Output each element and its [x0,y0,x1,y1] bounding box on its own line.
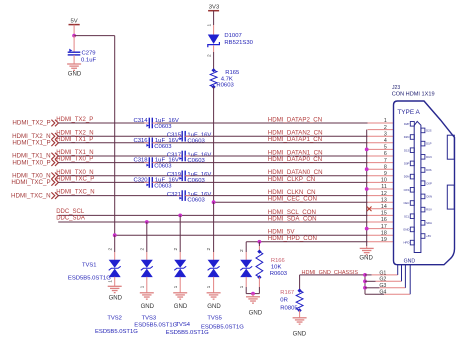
ground C279 [67,64,82,77]
svg-text:HDMI_TXC_N: HDMI_TXC_N [56,190,94,196]
svg-text:ESD5B5.0ST1G: ESD5B5.0ST1G [166,330,209,336]
svg-text:+5V: +5V [426,234,431,238]
svg-text:10K: 10K [271,265,282,271]
wire TVS3 pin2 stub [179,215,181,260]
value R167 R0805 [280,306,298,312]
svg-text:D0N: D0N [404,175,410,179]
pin label G4 [379,290,386,296]
svg-text:HDMI_DATAP2_CN: HDMI_DATAP2_CN [268,116,322,123]
capacitor C314 [146,118,152,129]
svg-text:HDMI_SDA_CON: HDMI_SDA_CON [268,215,317,222]
svg-text:C0603: C0603 [187,138,205,144]
wire shield gnd bus [366,130,368,246]
svg-text:C0603: C0603 [154,124,172,130]
tvs diode TVS4 [208,260,220,277]
svg-text:TVS3: TVS3 [142,315,157,321]
node SCL junction TVS3 [178,214,182,218]
port HDMI_TX0_P [12,159,58,166]
svg-text:C0603: C0603 [187,158,205,164]
svg-text:HDMI_CLKP_CN: HDMI_CLKP_CN [268,176,315,183]
node CEC junction TVS4 [212,200,216,204]
pin number 6 [384,151,387,157]
svg-text:8: 8 [384,164,387,170]
value C318 1uF 16V [155,158,179,164]
connector pin box pin 12 [421,194,432,199]
wire chassis bus [364,275,366,294]
svg-text:D1007: D1007 [224,33,241,39]
svg-text:9: 9 [384,171,387,177]
svg-text:HDMI_TXC_P: HDMI_TXC_P [56,177,94,183]
wire HDMI_TX0_N left segment [58,175,182,177]
net label HDMI_SCL_CON [268,209,316,216]
value C321 1uF 16V [187,192,211,198]
value C316 C0603 [154,144,172,150]
svg-text:RSV: RSV [426,208,432,212]
pin label G2 [379,277,386,283]
svg-text:R0805: R0805 [280,306,298,312]
svg-text:HDMI_TXC_P: HDMI_TXC_P [11,179,50,186]
svg-text:2: 2 [206,248,212,251]
node chassis bus G2 [363,279,367,283]
wire TVS5 gnd stem [252,294,254,297]
svg-text:G1: G1 [379,270,386,276]
tvs diode TVS1 [109,260,121,277]
pin 17 stub [368,228,394,230]
pin 1 D1007 [206,24,212,27]
pin 8 stub [368,168,394,170]
pin number 2 [384,125,387,131]
value C318 C0603 [154,164,172,170]
wire TVS1 pin2 stub [114,235,116,260]
wire G1 [365,274,398,276]
wire HDMI_TX1_P right segment [152,142,367,144]
wire G2 [365,280,402,282]
net label HDMI_DATAN2_CN [268,130,323,137]
pin label G3 [379,283,386,289]
svg-text:HDMI_DATAP0_CN: HDMI_DATAP0_CN [268,156,322,163]
connector pin box pin 8 [421,168,432,173]
svg-text:C279: C279 [82,50,96,56]
svg-text:HPD: HPD [403,241,409,245]
wire R166 pin1 stub [258,242,260,252]
svg-text:1: 1 [173,285,179,288]
pin number 5 [384,145,387,151]
svg-text:HDMI_TX2_P: HDMI_TX2_P [56,117,93,123]
label C279 [82,50,96,56]
label J23 [392,85,400,91]
port HDMI_TX2_P [12,120,58,127]
svg-text:C320: C320 [134,178,149,184]
pin 19 stub [368,241,394,243]
wire TVS5 R166 gnd link [246,293,259,295]
wire G4 [365,293,410,295]
svg-text:D0P: D0P [404,162,410,166]
svg-text:2: 2 [107,248,113,251]
pin number 4 [384,138,387,144]
svg-text:17: 17 [381,224,387,230]
wire HDMI_TX1_N right segment [185,155,367,157]
svg-text:GND: GND [359,255,373,261]
pin number 7 [384,158,387,164]
svg-text:CKP: CKP [426,181,432,185]
net label HDMI_TX0_N [56,170,93,176]
pin number 3 [384,131,387,137]
svg-text:C0603: C0603 [187,178,205,184]
svg-text:1: 1 [206,24,212,27]
pin 9 stub [368,175,394,177]
svg-text:HDMI_TX0_N: HDMI_TX0_N [56,170,93,176]
svg-text:R0603: R0603 [270,271,288,277]
wire HDMI_TX2_N right segment [185,135,367,137]
svg-text:C321: C321 [167,192,181,198]
node R167 top [298,289,301,292]
label C314 [134,118,149,124]
node 5V junction [72,34,76,38]
label D1007 [224,33,241,39]
net label HDMI_DATAN1_CN [268,149,323,156]
svg-text:19: 19 [381,237,387,243]
svg-text:2: 2 [384,125,387,131]
ground TVS5 [246,297,263,317]
pin 16 stub [368,221,394,223]
value CON HDMI 1X19 [392,91,435,97]
label C317 [167,152,181,158]
connector J23 body [394,101,455,265]
value R165 4.7K [221,76,233,82]
label TVS1 [82,263,97,269]
svg-text:G4: G4 [379,290,386,296]
svg-text:HDMI_TX1_P: HDMI_TX1_P [12,140,50,147]
pin G1 drop [397,265,399,275]
label TYPE A [397,109,420,116]
svg-text:GND: GND [109,296,123,302]
connector pin box pin 6 [421,155,432,160]
svg-text:HDMI_TX0_P: HDMI_TX0_P [12,159,50,166]
svg-text:R165: R165 [225,70,240,76]
wire HDMI_TX0_P right segment [152,162,367,164]
power symbol 5V [69,18,80,24]
label TVS4 [176,322,191,328]
pin number 11 [381,184,387,190]
svg-text:18: 18 [381,230,387,236]
node gnd bus pin 11 [365,187,369,191]
connector pin box pin 9 [404,174,415,179]
label C319 [167,172,181,178]
pin number 14 [381,204,387,210]
net label HDMI_CLKN_CN [268,189,316,196]
pin G3 drop [404,265,406,288]
connector plug blade [414,121,421,252]
wire DDC_SDA [58,221,367,223]
pin number 12 [381,191,387,197]
svg-text:J23: J23 [392,85,400,91]
pin 2 stub [368,129,394,131]
label C315 [167,133,182,139]
svg-text:HDMI_TX2_N: HDMI_TX2_N [56,130,93,136]
svg-text:1: 1 [239,285,245,288]
svg-text:2: 2 [173,248,179,251]
svg-text:GND: GND [404,259,416,265]
connector pin box pin 19 [403,240,414,245]
node gnd bus pin 8 [365,167,369,171]
tvs diode TVS3 [174,260,186,277]
pin 2 TVS2 [139,248,145,251]
port HDMI_TX0_N [12,173,58,180]
wire 5V to TVS1 column [74,36,115,236]
label TVS3 [142,315,157,321]
svg-text:R166: R166 [271,258,285,264]
value TVS3 ESD5B5.0ST1G [134,323,177,329]
power symbol 3V3 [208,5,220,11]
svg-text:D1S: D1S [404,148,410,152]
svg-text:HDMI_HPD_CON: HDMI_HPD_CON [268,235,317,242]
svg-text:C314: C314 [134,118,149,124]
svg-text:D2N: D2N [404,135,410,139]
wire HDMI_TX2_P left segment [58,122,149,124]
svg-text:SCL: SCL [404,214,410,218]
net label HDMI_TX1_N [56,150,93,156]
connector tab lower [447,185,454,209]
capacitor C317 [179,151,185,162]
pin number 17 [381,224,387,230]
svg-text:6: 6 [384,151,387,157]
net label HDMI_CEC_CON [268,196,317,203]
pin 1 TVS4 [206,285,212,288]
pin 10 stub [368,181,394,183]
node gnd bus pin 5 [365,148,369,152]
tvs diode TVS2 [141,260,153,277]
svg-text:2: 2 [239,249,245,252]
value C314 C0603 [154,124,172,130]
pin 3 stub [368,135,394,137]
svg-text:10: 10 [381,178,387,184]
pin 1 TVS1 [107,280,113,283]
svg-text:CKS: CKS [404,188,410,192]
ground TVS2 [140,293,155,310]
value TVS2 ESD5B5.0ST1G [95,329,138,335]
svg-text:14: 14 [381,204,387,210]
svg-text:2: 2 [206,54,212,57]
value RB521S30 [224,40,253,46]
capacitor C321 [179,190,185,201]
tvs diode TVS5 [240,260,252,277]
svg-text:GND: GND [174,304,188,310]
connector tab upper [447,135,454,159]
label C318 [134,158,149,164]
svg-text:1: 1 [384,118,387,124]
wire HDMI_TXC_P right segment [152,181,367,183]
port HDMI_TX2_N [12,133,58,140]
connector pin box pin 5 [404,148,414,153]
svg-text:DDC_SDA: DDC_SDA [56,215,85,221]
net label HDMI_TX0_P [56,157,93,163]
ground R167 [293,318,307,338]
svg-text:7: 7 [384,158,387,164]
svg-text:G3: G3 [379,283,386,289]
net label HDMI_5V [268,229,296,236]
svg-text:16: 16 [381,217,387,223]
label R166 [271,258,285,264]
wire gnd bus stem [366,246,368,248]
svg-text:HDMI_TX0_P: HDMI_TX0_P [56,157,93,163]
connector pin box pin 14 [421,207,432,212]
net label HDMI_TX2_P [56,117,93,123]
svg-text:HDMI_TXC_N: HDMI_TXC_N [11,192,51,199]
wire R167 pin2 stub [299,310,301,317]
svg-text:C318: C318 [134,158,149,164]
svg-text:HDMI_CEC_CON: HDMI_CEC_CON [268,196,317,203]
wire R165 to CEC junction [213,87,215,202]
pin number 16 [381,217,387,223]
svg-text:2: 2 [139,248,145,251]
capacitor C315 [179,131,185,142]
value C316 1uF 16V [155,138,179,144]
svg-text:HDMI_TX1_P: HDMI_TX1_P [56,137,93,143]
connector pin box pin 13 [403,201,414,206]
capacitor C320 [146,177,152,188]
value R167 0R [280,298,288,304]
svg-text:5V: 5V [70,18,77,24]
port HDMI_TX1_N [12,153,58,160]
wire HDMI_TXC_N left segment [58,195,182,197]
pin 2 TVS1 [107,248,113,251]
svg-text:D2S: D2S [426,129,432,133]
svg-text:D1N: D1N [426,155,432,159]
node chassis bus G3 [363,286,367,290]
svg-text:RB521S30: RB521S30 [224,40,253,46]
wire HDMI_TX1_N left segment [58,155,182,157]
net label HDMI_GND_CHASSIS [302,270,359,276]
svg-text:GND: GND [141,304,155,310]
value C321 C0603 [187,198,205,204]
svg-text:GND: GND [293,332,307,338]
wire TVS4 pin2 stub [213,202,215,260]
pin G4 drop [409,265,411,295]
value R166 R0603 [270,271,288,277]
connector pin box pin 3 [404,135,415,140]
pin G2 drop [401,265,403,282]
connector pin box pin 1 [404,122,414,127]
svg-text:4.7K: 4.7K [221,76,233,82]
ground TVS4 [207,293,222,310]
svg-text:R0603: R0603 [216,83,234,89]
value C279 0.1uF [81,57,96,63]
connector pin box pin 11 [404,188,415,193]
svg-text:ESD5B5.0ST1G: ESD5B5.0ST1G [68,275,111,281]
wire 3V3 to D1007 [213,11,215,35]
pin 4 stub [368,142,394,144]
wire HDMI_TX0_N right segment [185,175,367,177]
label connector GND [404,259,416,265]
label R167 [280,290,294,296]
svg-text:ESD5B5.0ST1G: ESD5B5.0ST1G [95,329,138,335]
svg-text:GND: GND [249,311,263,317]
pin number 8 [384,164,387,170]
pin 15 stub [368,214,394,216]
pin 18 stub [368,234,394,236]
pin number 1 [384,118,387,124]
pin 11 stub [368,188,394,190]
wire G3 [365,287,405,289]
svg-text:11: 11 [381,184,387,190]
ground TVS3 [173,293,188,310]
wire DDC_SCL [58,214,367,216]
svg-text:C0603: C0603 [154,183,172,189]
pin 1 TVS2 [139,285,145,288]
port HDMI_TXC_N [11,192,58,199]
wire HDMI_TX2_N left segment [58,135,182,137]
svg-text:TVS5: TVS5 [207,315,222,321]
svg-text:TYPE A: TYPE A [397,109,420,116]
wire R166 pin2 stub [258,277,260,293]
connector pin box pin 4 [421,141,432,146]
svg-text:G2: G2 [379,277,386,283]
wire D1007 to R165 [213,45,215,70]
pin number 19 [381,237,387,243]
pin 7 stub [368,162,394,164]
resistor R165 [210,68,217,89]
node TVS5 gnd junction [251,292,255,296]
pin number 15 [381,211,387,217]
wire TVS1 pin1 stub [114,277,116,287]
wire TVS3 pin1 stub [179,277,181,293]
wire C279 pin1 [73,36,75,53]
capacitor C279 [68,49,81,55]
svg-text:D1P: D1P [426,142,432,146]
wire HDMI_TXC_P left segment [58,181,149,183]
svg-text:1: 1 [139,285,145,288]
svg-text:TVS1: TVS1 [82,263,97,269]
wire TVS5 pin2 stub [245,242,247,260]
svg-text:HDMI_TX1_N: HDMI_TX1_N [56,150,93,156]
svg-text:ESD5B5.0ST1G: ESD5B5.0ST1G [201,324,244,330]
svg-text:12: 12 [381,191,387,197]
wire HDMI_5V [115,234,368,236]
value C320 C0603 [154,183,172,189]
net label HDMI_HPD_CON [268,235,317,242]
net label HDMI_DATAP2_CN [268,116,322,123]
pin 5 stub [368,148,394,150]
value C319 1uF 16V [187,172,211,178]
net label HDMI_TX2_N [56,130,93,136]
net label HDMI_DATAP1_CN [268,136,322,143]
connector pin box pin 10 [421,181,432,186]
value R165 R0603 [216,83,234,89]
pin number 18 [381,230,387,236]
net label HDMI_CLKP_CN [268,176,315,183]
svg-text:13: 13 [381,197,387,203]
value C319 C0603 [187,178,205,184]
net label HDMI_TXC_P [56,177,94,183]
connector pin box pin 16 [421,221,432,226]
svg-text:HDMI_TX2_P: HDMI_TX2_P [12,120,50,127]
pin 1 TVS3 [173,285,179,288]
net label HDMI_TX1_P [56,137,93,143]
value C315 C0603 [187,138,205,144]
diode D1007 [208,35,220,48]
pin 2 D1007 [206,54,212,57]
value C317 1uF 16V [187,152,211,158]
net label DDC_SCL [56,209,85,215]
node 5V junction TVS1 [113,233,117,237]
wire TVS4 pin1 stub [213,277,215,293]
svg-text:GND: GND [403,228,409,232]
value TVS5 ESD5B5.0ST1G [201,324,244,330]
net label HDMI_TXC_N [56,190,94,196]
svg-text:TVS2: TVS2 [107,315,122,321]
pin 14 stub [368,208,394,210]
label C320 [134,178,149,184]
